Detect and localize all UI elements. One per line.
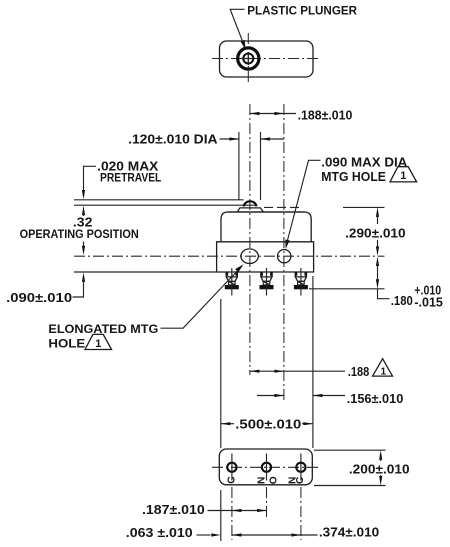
svg-text:.180: .180 — [391, 293, 413, 308]
arrowhead .500 right — [303, 422, 313, 425]
top view switch outline — [220, 41, 314, 77]
terminal NO center line below — [266, 487, 268, 518]
dim .200 lower arrowhead — [379, 476, 382, 486]
elongated mounting hole (left) — [241, 249, 258, 264]
dim .290 lower shaft — [377, 240, 379, 252]
terminal C center line below — [231, 487, 233, 540]
arrowhead .156 right — [313, 394, 323, 397]
terminal hole C (bold) — [227, 463, 236, 472]
terminal NC center line below — [300, 487, 302, 540]
dim .180 upper arrowhead — [376, 257, 379, 267]
svg-text:-.015: -.015 — [414, 295, 443, 310]
plunger inner circle — [243, 54, 253, 64]
dim line .32 lower shaft — [83, 242, 85, 252]
terminal middle — [260, 268, 274, 296]
svg-text:.063 ±.010: .063 ±.010 — [126, 525, 193, 540]
right extension line to bottom view — [312, 276, 314, 448]
terminal bottom extension line right — [309, 288, 385, 290]
svg-text:C: C — [295, 476, 306, 484]
plunger platform — [238, 208, 264, 212]
svg-text:.188±.010: .188±.010 — [298, 107, 353, 122]
dim line .188 top — [250, 113, 296, 115]
body lower outline — [217, 242, 314, 272]
left extension line to bottom view — [220, 299, 222, 448]
terminal left head — [226, 272, 237, 281]
plunger crosshair — [242, 52, 256, 65]
extension line plunger left — [238, 132, 240, 200]
bottom view outline — [219, 449, 312, 485]
holes center line horizontal — [74, 255, 385, 257]
svg-text:.500±.010: .500±.010 — [235, 417, 301, 432]
svg-text:.120±.010 DIA: .120±.010 DIA — [128, 132, 218, 147]
dim .374 leader — [301, 534, 318, 536]
svg-text:.188: .188 — [348, 364, 370, 379]
terminal left head caps — [226, 272, 229, 275]
leader plastic plunger — [230, 9, 244, 44]
svg-text:.090±.010: .090±.010 — [6, 290, 72, 305]
terminal right screw body — [298, 281, 305, 285]
dim line .500 right — [302, 423, 313, 425]
terminal middle screw body — [263, 281, 270, 285]
dim line .188 bottom — [250, 370, 345, 372]
terminal hole NO (bold) — [262, 463, 271, 472]
body bottom extension line left — [74, 271, 217, 273]
arrowhead .374 left — [232, 533, 242, 536]
dim line .090 shaft and jog — [73, 279, 84, 297]
leader .020 — [84, 166, 97, 196]
dim line .156 right part — [313, 395, 345, 397]
terminal right center line — [300, 268, 302, 296]
terminal right — [294, 268, 308, 296]
right mounting hole — [278, 250, 291, 263]
dim .290 upper arrowhead — [376, 207, 379, 217]
extension line plunger right — [260, 132, 262, 200]
terminal right head caps — [295, 272, 298, 275]
arrowhead .156 left — [274, 394, 284, 397]
arrowhead left .188 top — [250, 112, 260, 115]
dim .187 leader — [208, 510, 232, 512]
terminal middle center line — [266, 268, 268, 296]
dim line .32 upper shaft — [83, 213, 85, 216]
arrowhead .063 (points right at rect edge) — [211, 533, 221, 536]
svg-text:.374±.010: .374±.010 — [319, 525, 379, 540]
arrowhead .187 right — [257, 509, 267, 512]
body upper outline — [221, 212, 311, 242]
leader arrowhead elongated hole — [235, 264, 243, 272]
top view plunger vertical center line — [247, 33, 249, 84]
pretravel line — [74, 204, 256, 206]
svg-text:1: 1 — [381, 366, 387, 377]
dim .290 lower arrowhead — [376, 246, 379, 256]
leader arrowhead .090 mtg hole — [285, 240, 289, 249]
extension line plunger CL (dash-dot down) — [249, 104, 251, 375]
svg-text:HOLE: HOLE — [48, 336, 85, 350]
svg-text:C: C — [227, 476, 238, 484]
svg-text:.090 MAX DIA: .090 MAX DIA — [321, 155, 407, 170]
arrowhead right .188 top — [274, 112, 284, 115]
bottom view horizontal center line — [212, 466, 319, 468]
terminal left center line — [231, 268, 233, 296]
vertical center line through hole C — [231, 454, 233, 481]
arrowhead .120 left — [229, 137, 239, 140]
terminal middle base (bold) — [260, 285, 274, 289]
arrowhead .500 left — [221, 422, 231, 425]
vertical center line through hole NO — [266, 454, 268, 481]
svg-text:MTG HOLE: MTG HOLE — [321, 169, 386, 184]
dim .200 lower shaft — [380, 475, 382, 479]
terminal middle head caps — [260, 272, 263, 275]
svg-text:O: O — [269, 476, 280, 484]
terminal hole NC (bold) — [296, 463, 305, 472]
dim line .120 left part — [220, 138, 239, 140]
dim line .500 left — [221, 423, 234, 425]
svg-text:.187±.010: .187±.010 — [142, 502, 205, 517]
body top edge — [228, 211, 304, 213]
flag note 1 trapezoid (mtg hole) — [390, 167, 417, 182]
svg-text:.156±.010: .156±.010 — [347, 391, 404, 406]
triangle note 1 — [373, 359, 393, 376]
svg-text:N: N — [257, 477, 268, 484]
terminal right base (bold) — [294, 285, 308, 289]
dim .063 leader — [197, 534, 211, 536]
free position line — [74, 199, 244, 201]
plunger outer circle (bold) — [238, 48, 259, 69]
arrowhead .374 right — [291, 533, 301, 536]
dim .180 lower arrowhead — [376, 279, 379, 289]
dim .200 upper arrowhead — [379, 450, 382, 460]
terminal left — [225, 268, 239, 296]
dim .290 upper shaft — [377, 214, 379, 224]
svg-text:OPERATING POSITION: OPERATING POSITION — [20, 227, 139, 241]
svg-text:1: 1 — [95, 338, 101, 350]
arrowhead .120 right — [261, 137, 271, 140]
extension line right hole CL (dash-dot down) — [283, 104, 285, 403]
svg-text:PLASTIC PLUNGER: PLASTIC PLUNGER — [247, 3, 357, 17]
arrowhead .090 up — [82, 272, 85, 282]
dim line .120 right part — [261, 138, 284, 140]
dim .374 line — [232, 534, 301, 536]
dim .200 upper shaft — [380, 457, 382, 461]
extension line bottom rect bottom right — [314, 485, 386, 487]
arrowhead .020 down — [82, 190, 85, 200]
vertical center line through hole NC — [300, 454, 302, 481]
top view horizontal center line — [212, 58, 321, 60]
operating top extension line right — [264, 206, 302, 208]
leader .090 mtg hole — [287, 160, 321, 242]
leader arrowhead plastic plunger — [241, 40, 246, 50]
svg-text:PRETRAVEL: PRETRAVEL — [100, 171, 161, 185]
arrowhead right .188 bottom — [274, 370, 284, 373]
arrowhead .32 down — [82, 246, 85, 256]
dim .180 shaft — [377, 263, 379, 285]
left rect extension below — [220, 490, 222, 541]
svg-text:1: 1 — [400, 170, 406, 182]
terminal middle head — [261, 272, 272, 281]
dim .180 tail and jog — [378, 289, 390, 299]
terminal left base (bold) — [225, 285, 239, 289]
arrowhead .32 up (below pretravel line) — [82, 206, 85, 216]
svg-text:.200±.010: .200±.010 — [349, 461, 410, 476]
arrowhead .187 left — [232, 509, 242, 512]
extension line bottom rect top right — [314, 449, 386, 451]
dim line .156 left part — [257, 395, 284, 397]
terminal left screw body — [229, 281, 236, 285]
dim .187 line — [232, 510, 267, 512]
leader elongated hole — [161, 267, 242, 329]
terminal right head — [295, 272, 306, 281]
arrowhead left .188 bottom — [250, 370, 260, 373]
svg-text:.290±.010: .290±.010 — [345, 225, 406, 240]
plunger dome (bold arc) — [244, 201, 256, 206]
flag note 1 trapezoid (elongated hole) — [85, 334, 112, 349]
